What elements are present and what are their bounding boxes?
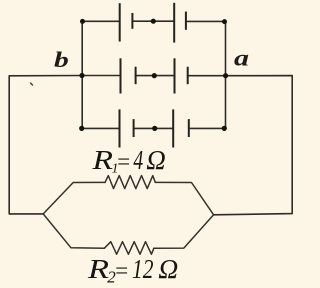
wire R1 branch lead-out (horizontal + right diagonal) — [155, 182, 213, 214]
svg-text:4: 4 — [133, 145, 143, 175]
svg-text:b: b — [54, 47, 69, 72]
resistor R2 zigzag — [104, 242, 153, 255]
junction dot row3 mid — [152, 126, 157, 131]
node a junction dot — [223, 73, 228, 78]
stray tick mark — [31, 83, 33, 85]
svg-text:Ω: Ω — [146, 145, 166, 175]
wire R1 branch lead-in (left diagonal + horizontal) — [43, 182, 105, 214]
wire row2 segment b-side — [82, 75, 120, 77]
junction dot row2 mid — [152, 73, 157, 78]
wire outer loop left (b to left rail down to resistor bank) — [9, 76, 82, 214]
junction dot row3 right — [222, 126, 227, 131]
battery cell row2 left: long plate — [120, 58, 122, 93]
junction dot row1 right corner — [222, 19, 227, 24]
node b junction dot — [79, 73, 84, 78]
wire row2 segment a-side — [188, 75, 226, 77]
junction dot row1 left — [80, 19, 85, 24]
wire row3 segment a-side — [189, 127, 225, 129]
battery cell row3 left: long plate — [119, 109, 121, 147]
svg-text:Ω: Ω — [158, 254, 178, 284]
svg-text:=: = — [116, 149, 132, 174]
junction dot row3 left — [79, 126, 84, 131]
wire row3 mid segment — [134, 127, 174, 129]
battery cell row1 right: short plate — [185, 12, 187, 30]
svg-text:=: = — [114, 258, 130, 283]
value label R1 = 4 ohm — [91, 145, 165, 177]
wire row3 segment b-side — [82, 127, 120, 129]
wire row2 mid segment — [136, 75, 175, 77]
battery cell row2 right: short plate — [187, 67, 189, 85]
wire outer loop right (a to right rail down to resistor bank) — [214, 76, 293, 215]
battery cell row1 right: long plate — [173, 3, 175, 43]
wire R2 branch lead-in (left diagonal + horizontal) — [43, 214, 104, 248]
wire left vertical bus — [81, 21, 83, 128]
svg-text:a: a — [234, 46, 249, 71]
battery cell row3 right: short plate — [188, 119, 190, 137]
svg-text:R: R — [87, 254, 110, 284]
wire row1 segment b-side — [82, 20, 119, 22]
battery cell row2 right: long plate — [174, 58, 176, 93]
svg-text:R: R — [91, 145, 113, 175]
battery cell row1 left: long plate — [119, 3, 121, 41]
battery cell row3 left: short plate — [133, 119, 135, 137]
battery cell row2 left: short plate — [135, 67, 137, 85]
wire R2 branch lead-out (horizontal + right diagonal) — [154, 215, 214, 248]
value label R2 = 12 ohm — [87, 254, 179, 287]
resistor R1 zigzag — [105, 176, 155, 189]
svg-text:12: 12 — [132, 254, 154, 284]
wire right vertical bus — [225, 22, 227, 129]
battery cell row3 right: long plate — [172, 109, 174, 147]
wire row1 mid segment — [132, 20, 174, 22]
battery cell row1 left: short plate — [131, 13, 133, 29]
wire row1 segment a-side — [186, 20, 225, 22]
junction dot row1 mid — [151, 19, 156, 24]
